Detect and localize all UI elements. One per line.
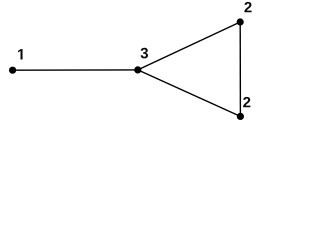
- node 3: [134, 66, 141, 73]
- wire edge node1-node3: [13, 69, 138, 71]
- wire edge node3-node2bottom: [138, 70, 241, 117]
- node 2 bottom: [237, 113, 244, 120]
- label 2 (node 2 bottom): [243, 97, 250, 107]
- label 2 (node 2 top): [244, 2, 251, 12]
- label 1 (node 1): [18, 49, 23, 59]
- node 1: [9, 67, 16, 74]
- node 2 top: [237, 18, 244, 25]
- wire edge node3-node2top: [138, 22, 240, 70]
- wire edge node2top-node2bottom: [239, 22, 241, 116]
- label 3 (node 3): [141, 48, 148, 59]
